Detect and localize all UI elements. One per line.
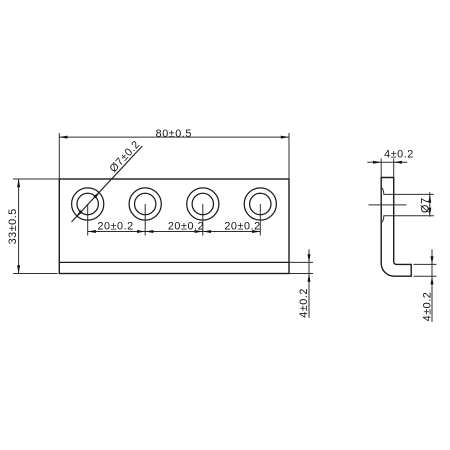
leader upper arrow bbox=[93, 190, 101, 198]
dimension 4+-0.2 front upper arrow bbox=[308, 254, 311, 262]
dimension 33+-0.5 top arrow bbox=[17, 179, 20, 187]
svg-text:Ø7: Ø7 bbox=[419, 197, 431, 213]
dimension diameter 7 side line bbox=[429, 192, 431, 217]
dimension 4+-0.2 side bottom upper arrow bbox=[431, 256, 434, 264]
hole 1 centerline bbox=[87, 204, 89, 236]
svg-text:20±0.2: 20±0.2 bbox=[97, 220, 133, 232]
dimension chain 20+-0.2 line bbox=[88, 231, 261, 233]
svg-text:Ø7±0.2: Ø7±0.2 bbox=[107, 138, 142, 174]
dimension 80+-0.5 extension lines bbox=[59, 133, 289, 179]
dimension 33+-0.5 bottom arrow bbox=[17, 265, 20, 273]
hole 3 centerline bbox=[202, 204, 204, 236]
svg-text:80±0.5: 80±0.5 bbox=[156, 128, 192, 140]
dimension 4+-0.2 side bottom line bbox=[431, 249, 433, 322]
svg-text:20±0.2: 20±0.2 bbox=[224, 220, 260, 232]
dimension 4+-0.2 front lower arrow bbox=[308, 274, 311, 282]
svg-text:33±0.5: 33±0.5 bbox=[7, 208, 19, 244]
side view countersink upper curve and bore line bbox=[381, 187, 434, 194]
dimension 33+-0.5 extension lines bbox=[13, 179, 59, 274]
chain arrows at hole3 bbox=[195, 230, 211, 233]
dimension 4+-0.2 side top left arrow bbox=[373, 161, 381, 164]
hole 3 outer circle bbox=[187, 188, 219, 220]
dimension 4+-0.2 side bottom lower arrow bbox=[431, 276, 434, 284]
hole 4 bore circle bbox=[250, 193, 271, 214]
leader lower arrow bbox=[75, 210, 83, 218]
leader line diameter 7+-0.2 bbox=[72, 146, 143, 222]
chain arrow at hole4 bbox=[252, 230, 260, 233]
side view countersink lower curve and bore line bbox=[381, 216, 434, 223]
dimension 80+-0.5 line bbox=[59, 136, 289, 138]
dimension 4+-0.2 side top extension lines bbox=[381, 159, 394, 178]
dimension 4+-0.2 side top right arrow bbox=[394, 161, 402, 164]
hole 4 centerline bbox=[259, 204, 261, 236]
front view plate outline bbox=[59, 179, 289, 274]
dimension 4+-0.2 front extension lines bbox=[289, 262, 313, 273]
svg-text:4±0.2: 4±0.2 bbox=[298, 288, 310, 318]
dimension diameter 7 upper arrow bbox=[428, 194, 431, 202]
front view bend line bbox=[59, 261, 289, 263]
svg-text:4±0.2: 4±0.2 bbox=[422, 292, 434, 322]
dimension 4+-0.2 side bottom extension lines bbox=[414, 264, 437, 276]
dimension diameter 7 lower arrow bbox=[428, 208, 431, 216]
hole 2 bore circle bbox=[135, 193, 156, 214]
side view hole centerline bbox=[369, 204, 407, 206]
dimension 80+-0.5 left arrow bbox=[59, 136, 67, 139]
hole 2 centerline bbox=[144, 204, 146, 236]
dimension 4+-0.2 side top line bbox=[367, 161, 407, 163]
hole 2 outer circle bbox=[129, 188, 161, 220]
dimension 4+-0.2 front line bbox=[308, 249, 310, 317]
hole 3 bore circle bbox=[192, 193, 213, 214]
svg-text:4±0.2: 4±0.2 bbox=[384, 148, 414, 160]
side view L profile bbox=[381, 178, 411, 277]
hole 1 outer circle bbox=[72, 188, 104, 220]
dimension 33+-0.5 line bbox=[18, 179, 20, 274]
chain arrow at hole1 bbox=[88, 230, 96, 233]
dimension 80+-0.5 right arrow bbox=[281, 136, 289, 139]
hole 4 outer circle bbox=[244, 188, 276, 220]
chain arrows at hole2 bbox=[137, 230, 153, 233]
svg-text:20±0.2: 20±0.2 bbox=[168, 220, 204, 232]
hole 1 bore circle bbox=[77, 193, 98, 214]
